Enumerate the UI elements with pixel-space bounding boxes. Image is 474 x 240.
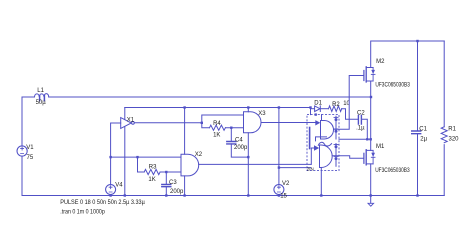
wire: R3 branch from node [138, 157, 145, 172]
diode D1 [311, 100, 323, 111]
wire: C2 to switch node [362, 119, 368, 139]
wire: X1 ground pin to bottom rail [124, 127, 126, 196]
capacitor C1 [412, 127, 428, 143]
driver internal link (upper gate to lower) [316, 137, 327, 141]
wire: M2 source to switch node [370, 81, 372, 97]
wire: D1 to R2 [320, 108, 328, 110]
wire: driver ground pin to bottom rail [320, 168, 322, 196]
svg-text:PULSE 0 18 0 50n 50n 2.5µ 3.33: PULSE 0 18 0 50n 50n 2.5µ 3.33µ [60, 200, 145, 206]
AND gate X3 [244, 111, 267, 133]
svg-text:2µ: 2µ [420, 137, 427, 143]
inductor L1 [35, 88, 49, 106]
capacitor C2 [356, 111, 365, 132]
resistor R3 [144, 165, 160, 184]
svg-text:R3: R3 [149, 165, 157, 171]
svg-text:X2: X2 [195, 152, 203, 158]
svg-text:C4: C4 [235, 138, 243, 144]
driver upper AND gate [321, 121, 334, 140]
voltage source V2 [274, 181, 290, 199]
wire: V2 riser to VCC rail [278, 108, 280, 196]
svg-text:75: 75 [27, 155, 34, 161]
wire: driver VCC pin drop [310, 108, 312, 115]
driver input buffer (lower) [314, 145, 319, 150]
wire: X1 power pin to VCC rail [124, 108, 126, 120]
svg-text:1K: 1K [213, 133, 220, 139]
wire: bottom ground rail [22, 195, 444, 197]
wire: VCC 15V rail [125, 107, 311, 109]
svg-text:L1: L1 [37, 88, 44, 94]
resistor R2 [329, 101, 351, 111]
driver input riser (lower) [311, 148, 314, 164]
wire: X2 ground pin to bottom rail [184, 176, 186, 196]
svg-text:R4: R4 [213, 121, 221, 127]
driver input buffer (upper) [315, 120, 320, 125]
resistor R4 [210, 121, 226, 139]
svg-text:1K: 1K [148, 177, 155, 183]
AND gate X2 [181, 152, 203, 176]
svg-text:UF3C065030B3: UF3C065030B3 [375, 83, 410, 89]
svg-text:2IN: 2IN [307, 166, 314, 171]
svg-text:V4: V4 [115, 183, 123, 189]
svg-text:C1: C1 [419, 127, 427, 133]
wire: C4 branch down to ground rail [231, 128, 248, 157]
svg-text:15: 15 [280, 193, 287, 199]
wire: HO output to M2 gate [334, 76, 365, 130]
MOSFET M1 [364, 144, 410, 174]
svg-text:R2: R2 [332, 102, 340, 108]
svg-text:320: 320 [449, 137, 460, 143]
svg-text:UF3C065030B3: UF3C065030B3 [375, 168, 410, 174]
MOSFET M2 [364, 59, 411, 88]
capacitor C4 [227, 138, 248, 151]
wire: driver VS pin to M1 drain [339, 138, 371, 140]
wire: C1 branch [417, 41, 419, 196]
wire: M1 source to ground rail [370, 164, 372, 196]
wire: output top rail [371, 40, 444, 42]
wire: V4 riser to X1 input [111, 123, 121, 196]
wire: LO output to M1 gate [332, 156, 364, 159]
svg-text:X1: X1 [127, 118, 135, 124]
wire: R2 to bootstrap node VB [342, 109, 359, 120]
svg-text:M1: M1 [376, 144, 385, 150]
svg-text:C2: C2 [357, 111, 365, 117]
ground symbol [368, 196, 374, 207]
wire: node A down-branch to R4 [202, 123, 210, 128]
wire: X3 power pin to VCC rail [247, 108, 249, 112]
wire: X2 power pin to VCC rail [184, 108, 186, 155]
voltage source V4 [106, 183, 124, 195]
wire: R3 to X2 input 2 [160, 171, 181, 173]
svg-text:D1: D1 [314, 100, 322, 106]
wire: R4 to X3 input 2 [226, 127, 244, 129]
svg-text:M2: M2 [376, 59, 385, 65]
svg-text:50µ: 50µ [36, 100, 47, 106]
wire: V2 to driver VDD pin [279, 167, 311, 169]
svg-text:V2: V2 [282, 181, 290, 187]
driver lower AND gate [320, 145, 333, 168]
wire: C3 branch down to ground rail [165, 172, 167, 196]
wire: M2 drain to output top rail [370, 41, 372, 68]
resistor R1 [441, 127, 459, 143]
driver output stage diodes (upper) [334, 116, 338, 139]
svg-text:200p: 200p [234, 145, 248, 151]
voltage source V1 [17, 145, 34, 161]
driver internal wave graphic [318, 142, 331, 146]
wire: input/switch-node top wire [22, 96, 371, 98]
wire: driver upper gate top pin [321, 115, 323, 121]
capacitor C3 [162, 180, 184, 195]
inverter X1 [121, 118, 135, 129]
wire: X2 output to driver lower input [199, 163, 311, 165]
wire: X3 ground pin to bottom rail [247, 133, 249, 196]
svg-text:V1: V1 [26, 145, 34, 151]
wire: R1 branch [443, 41, 445, 196]
svg-text:.tran 0 1m 0 1000p: .tran 0 1m 0 1000p [60, 209, 105, 215]
gate driver U1 dashed box [307, 115, 339, 171]
svg-text:X3: X3 [258, 111, 266, 117]
svg-text:R1: R1 [448, 127, 456, 133]
svg-text:.1µ: .1µ [356, 126, 365, 132]
wire: node A up-branch to X3 input 1 [202, 115, 244, 123]
svg-text:200p: 200p [170, 189, 184, 195]
driver internal rail [309, 128, 311, 149]
wire: V4 branch to X2 input 1 [111, 156, 181, 158]
wire: left branch vertical (V1) [21, 97, 23, 196]
wire: M1 drain to switch node [370, 97, 372, 150]
wire: X3 output to driver upper input [261, 122, 315, 124]
driver output stage diodes (lower) [334, 144, 338, 167]
svg-text:C3: C3 [169, 180, 177, 186]
wire: X1 output node A [134, 122, 201, 124]
